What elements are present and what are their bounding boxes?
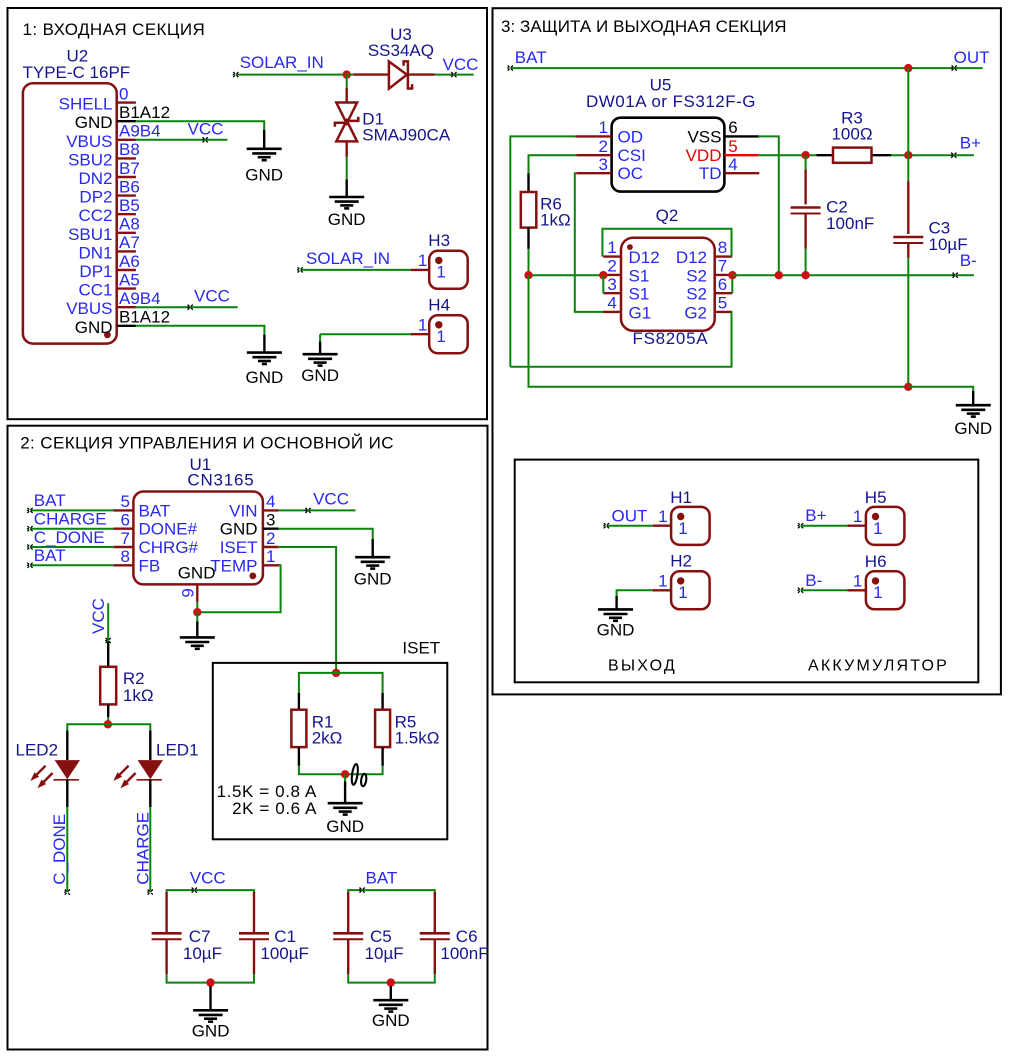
svg-text:DONE#: DONE# [139,520,198,539]
ground GND7 (ISET) [328,803,363,814]
svg-text:6: 6 [718,275,727,294]
svg-text:0: 0 [119,84,128,103]
wire: B- to H6 [801,589,848,591]
svg-text:A8: A8 [119,215,140,234]
Q2 pin 6 (S2) [715,292,733,294]
svg-text:ВЫХОД: ВЫХОД [608,657,677,674]
connector H2 [671,571,710,609]
wire: ground to H2 [617,590,653,596]
svg-text:TYPE-C 16PF: TYPE-C 16PF [23,63,131,82]
svg-text:A5: A5 [119,270,140,289]
svg-text:3: 3 [607,275,616,294]
wire anchor [603,523,609,528]
U2 pin A9B4 (VBUS) [117,306,136,308]
U1 pin 8 (FB) [113,564,133,566]
wire: SOLAR_IN net [236,74,352,76]
wire: net BAT to U1 pin 8 [30,564,113,566]
tvs D1 top lead [346,88,348,103]
gnd lead [972,391,974,405]
ic U1 pin-1 dot [249,573,256,580]
U2 pin B7 (DN2) [117,176,136,178]
wire: CSI to R6 [529,155,577,173]
U5 pin 1 (OD) [575,135,611,137]
svg-text:VCC: VCC [190,868,226,887]
U2 pin B5 (CC2) [117,213,136,215]
svg-text:B+: B+ [960,134,981,153]
wire anchor [798,588,804,593]
svg-text:SBU2: SBU2 [68,150,112,169]
resistor R5 [375,710,390,747]
svg-text:H6: H6 [865,552,887,571]
junction (S2 pins) [728,271,736,279]
svg-text:DP2: DP2 [79,188,112,207]
junction (B+ / C3) [904,151,912,159]
svg-text:2: 2 [607,257,616,276]
section 1 border [8,8,488,419]
svg-text:A9B4: A9B4 [119,289,161,308]
Q2 pin 3 (S1) [603,292,621,294]
gnd lead [372,539,374,557]
svg-text:100nF: 100nF [440,944,488,963]
svg-text:B1A12: B1A12 [119,103,170,122]
connector U2 body [23,83,117,343]
svg-text:GND: GND [354,570,392,589]
U2 pin B1A12 (GND) [117,120,136,122]
Q2 pin 2 (S1) [603,274,621,276]
svg-text:2: 2 [599,137,608,156]
svg-text:A6: A6 [119,252,140,271]
svg-text:G2: G2 [684,303,707,322]
capacitor C1 bottom lead [253,939,255,974]
svg-text:GND: GND [954,419,992,438]
svg-text:1.5kΩ: 1.5kΩ [395,729,440,748]
svg-text:GND: GND [326,817,364,836]
ground GND8 (C7/C1) [193,1010,228,1021]
junction (C7/C1 gnd) [206,978,214,986]
capacitor C6 top lead [434,892,436,933]
wire: S2 row to B- [732,274,974,276]
capacitor C7 plates [152,932,182,935]
wire: VCC cap rail top [167,890,254,892]
wire anchor [64,890,70,895]
svg-text:D12: D12 [629,248,660,267]
wire anchor [297,267,303,272]
svg-text:100nF: 100nF [826,214,874,233]
wire: net CHARGE to U1 pin 6 [30,528,113,530]
wire: U3 to VCC [435,74,474,76]
wire: net BAT to U1 pin 5 [30,509,113,511]
wire: LED rail [67,724,150,730]
svg-text:ISET: ISET [402,639,440,658]
Q2 pin 8 (D12) [715,255,733,257]
svg-text:1: 1 [853,507,862,526]
connector H2 pin lead [653,589,672,591]
svg-text:B+: B+ [805,506,826,525]
svg-text:1: 1 [266,547,275,566]
wire: U1 GND pin to ground [279,529,373,539]
svg-text:CSI: CSI [618,146,646,165]
svg-text:H1: H1 [670,488,692,507]
connector H1 [671,507,710,545]
svg-text:GND: GND [192,1021,230,1040]
svg-text:SS34AQ: SS34AQ [368,41,434,60]
svg-text:GND: GND [75,318,113,337]
resistor R1 [291,710,306,747]
U2 pin A9B4 (VBUS) [117,139,136,141]
U2 pin 0 (SHELL) [117,101,136,103]
ground GND5 (U1 pin3) [355,557,390,568]
ground GND10 (section 3) [956,405,991,416]
U1 pin 5 (BAT) [113,509,133,511]
svg-text:FB: FB [139,556,161,575]
wire anchor (OUT) [951,66,957,71]
svg-text:5: 5 [121,492,130,511]
section 2 border [8,426,488,1050]
junction (S1 pins) [599,271,607,279]
svg-text:TEMP: TEMP [210,556,257,575]
svg-text:B-: B- [960,251,977,270]
svg-text:S2: S2 [686,266,707,285]
led LED1 triangle [138,760,163,779]
wire: R6-S1 vertical to gnd row [529,275,909,387]
jumper ellipses [351,764,359,785]
wire anchor [305,508,311,513]
wire: BAT cap rail top [348,890,435,892]
tvs D1 top triangle [336,103,357,124]
wire: C5/C6 bottom rail [348,974,435,983]
wire: ground to H4 [320,333,411,335]
wire: ISET resistor rail top [299,673,383,693]
wire anchor [952,273,958,278]
U1 pin 2 (ISET) [263,546,279,548]
capacitor C1 plates [239,932,269,935]
wire: C3 to gnd row [907,258,909,387]
svg-text:CHARGE: CHARGE [134,812,153,885]
led LED2 top lead [66,730,68,760]
wire: OUT branch down to B+ [907,68,909,155]
svg-text:OC: OC [618,164,644,183]
wire: R3 to B+ [891,154,974,156]
connector H5 [866,507,905,545]
resistor R1 top lead [298,693,300,710]
wire: S1 pin3 tie [602,275,604,293]
svg-text:S1: S1 [629,285,650,304]
U5 pin 6 (VSS) [724,135,758,137]
tvs D1 bottom lead [346,141,348,157]
wire: VSS down to S2 row [759,136,779,275]
svg-text:C_DONE: C_DONE [50,814,69,885]
wire anchor [202,137,208,142]
wire anchor [451,72,457,77]
gnd lead [263,130,265,148]
wire: OUT to H1 [606,525,652,527]
svg-text:B5: B5 [119,196,140,215]
resistor R1 bottom lead [298,747,300,766]
svg-text:3: 3 [266,511,275,530]
wire anchor [105,638,111,643]
svg-text:1: 1 [658,507,667,526]
svg-text:Q2: Q2 [656,206,679,225]
led LED1 bottom lead [149,780,151,807]
gnd lead [263,335,265,352]
transistor Q2 body [621,238,715,331]
R2 bottom lead [107,704,109,717]
wire: junction down to D1 [346,75,348,88]
svg-text:SBU1: SBU1 [68,225,112,244]
svg-text:1: ВХОДНАЯ СЕКЦИЯ: 1: ВХОДНАЯ СЕКЦИЯ [23,20,206,39]
junction (gnd row / C3) [904,383,912,391]
R2 top lead [107,641,109,667]
wire: LED2 to C_DONE [66,807,68,892]
diode U3 cathode lead [408,73,435,75]
svg-text:10µF: 10µF [183,944,222,963]
wire: VCC down to R2 [107,603,109,641]
wire anchor [359,888,365,893]
svg-text:S2: S2 [686,285,707,304]
resistor R2 [100,667,116,705]
svg-text:VCC: VCC [194,286,230,305]
capacitor C7 top lead [165,892,167,933]
svg-text:OUT: OUT [954,48,990,67]
junction (ISET bottom) [341,770,349,778]
svg-text:CHRG#: CHRG# [139,538,199,557]
svg-text:DP1: DP1 [79,262,112,281]
svg-text:2K = 0.6 A: 2K = 0.6 A [232,799,317,818]
section 3 border [493,8,1001,694]
capacitor C3 plates [893,236,923,239]
svg-text:D12: D12 [676,248,707,267]
svg-text:1: 1 [418,315,427,334]
svg-text:LED2: LED2 [16,741,59,760]
svg-text:GND: GND [178,564,216,583]
svg-text:B8: B8 [119,140,140,159]
svg-text:1: 1 [599,118,608,137]
svg-text:A9B4: A9B4 [119,122,161,141]
U1 pin 3 (GND) [263,528,279,530]
svg-text:5: 5 [718,294,727,313]
resistor R3 leads [816,154,833,156]
gnd lead [390,986,392,1000]
wire: G2 loop to OD vertical [510,312,731,367]
Q2 pin 1 (D12) [603,255,621,257]
svg-text:2: СЕКЦИЯ УПРАВЛЕНИЯ И ОСНОВНО: 2: СЕКЦИЯ УПРАВЛЕНИЯ И ОСНОВНОЙ ИС [20,433,394,452]
svg-text:BAT: BAT [139,501,171,520]
connector H5 pin lead [847,525,866,527]
capacitor C2 bottom lead [804,214,806,249]
connector H6 [866,571,905,609]
U2 pin B8 (SBU2) [117,157,136,159]
wire: S2 pins tie [731,275,733,293]
svg-text:VCC: VCC [313,490,349,509]
svg-text:4: 4 [266,492,275,511]
wire: BAT / OUT row [510,67,982,69]
connector H1 pin lead [653,525,672,527]
svg-text:H3: H3 [428,231,450,250]
svg-text:VIN: VIN [229,501,257,520]
wire: VDD to R3/C2 [758,154,816,156]
svg-text:GND: GND [328,210,366,229]
svg-text:S1: S1 [629,266,650,285]
wire anchor [798,523,804,528]
svg-text:GND: GND [75,113,113,132]
ground GND4 (H4) [303,354,338,365]
junction (ISET top) [332,669,340,677]
ground GND11 (H2) [598,609,633,620]
svg-text:2kΩ: 2kΩ [312,729,343,748]
wire: U1 TEMP loop to pin 9 [197,565,280,612]
svg-text:B1A12: B1A12 [119,308,170,327]
connector H4 pin lead [411,333,430,335]
svg-text:H5: H5 [865,488,887,507]
svg-text:5: 5 [728,137,737,156]
junction (U1 pin9/TEMP/GND) [193,608,201,616]
wire: Q2 D1-D2 top rail [602,229,731,257]
svg-text:SHELL: SHELL [59,95,113,114]
output/battery inner box [515,460,979,683]
R6 top lead [527,173,529,192]
svg-text:OUT: OUT [612,507,648,526]
wire: U2 bottom VBUS to VCC [136,306,238,308]
svg-text:GND: GND [301,366,339,385]
wire [196,612,198,621]
svg-text:1: 1 [607,238,616,257]
svg-text:GND: GND [245,165,283,184]
svg-text:CC2: CC2 [78,206,112,225]
U5 pin 3 (OC) [576,172,611,174]
svg-text:C_DONE: C_DONE [34,528,105,547]
svg-text:B-: B- [805,571,822,590]
led LED2 cathode bar [54,779,79,781]
wire: D1 to ground [346,157,348,180]
wire C2 to B- row [805,249,807,276]
svg-text:7: 7 [718,257,727,276]
svg-text:6: 6 [728,118,737,137]
svg-text:B6: B6 [119,177,140,196]
svg-text:GND: GND [220,520,258,539]
capacitor C6 bottom lead [434,939,436,974]
ic U5 body [612,118,725,192]
svg-text:BAT: BAT [515,48,547,67]
svg-text:4: 4 [728,155,737,174]
svg-text:C7: C7 [189,927,211,946]
connector H4 [429,315,468,353]
resistor R5 bottom lead [381,747,383,766]
wire: U1 VIN to VCC [279,509,356,511]
gnd lead [344,782,346,803]
wire: junction to U3 [347,74,354,76]
svg-text:АККУМУЛЯТОР: АККУМУЛЯТОР [808,657,949,674]
gnd lead [346,179,348,196]
wire R6 to junction [528,249,530,275]
transistor Q2 pin-1 dot [627,244,633,250]
svg-text:A7: A7 [119,233,140,252]
gnd lead [615,596,617,609]
wire: U2 top GND pin to ground [136,121,264,130]
led LED1 top lead [149,730,151,760]
U2 pin A8 (SBU1) [117,232,136,234]
junction (VSS / B- row) [775,271,783,279]
ground GND9 (C5/C6) [373,1000,408,1011]
junction (C5/C6 gnd) [387,978,395,986]
U1 pin 7 (CHRG#) [113,546,133,548]
U2 pin A6 (DP1) [117,269,136,271]
svg-text:VBUS: VBUS [66,132,112,151]
capacitor C1 top lead [253,892,255,933]
wire: ISET bottom to ground [344,774,346,781]
gnd lead [209,986,211,1010]
wire: OD loop (left vertical) [510,136,575,366]
svg-text:9: 9 [179,588,198,597]
svg-text:SMAJ90CA: SMAJ90CA [362,125,451,144]
Q2 pin 4 (G1) [603,311,621,313]
svg-text:1kΩ: 1kΩ [540,211,571,230]
svg-text:VSS: VSS [687,127,721,146]
resistor R6 bottom lead [527,228,529,249]
svg-text:OD: OD [618,127,644,146]
svg-text:H4: H4 [428,296,450,315]
junction (R2 / LEDs) [104,720,112,728]
U5 pin 2 (CSI) [576,154,611,156]
svg-text:B7: B7 [119,159,140,178]
capacitor C2 plates [791,206,821,209]
resistor R5 top lead [381,693,383,710]
wire: LED1 to CHARGE [149,807,151,892]
capacitor C5 plates [333,932,363,935]
led LED1 cathode bar [137,779,162,781]
gnd lead [196,622,198,638]
svg-text:SOLAR_IN: SOLAR_IN [306,249,390,268]
diode U3 anode lead [353,73,389,75]
diode U3 schottky cathode bar [404,61,413,88]
capacitor C5 bottom lead [347,939,349,974]
U5 pin 5 (VDD) [724,154,758,156]
svg-text:BAT: BAT [34,546,66,565]
svg-text:GND: GND [597,621,635,640]
wire: B+ to H5 [801,525,848,527]
wire anchor [951,153,957,158]
U5 pin 4 (TD) [724,172,759,174]
connector H3 pin lead [411,269,430,271]
tvs D1 z-bar [335,117,358,127]
wire anchor [191,888,197,893]
capacitor C3 top lead [907,155,909,181]
resistor R3 [833,148,872,163]
ground GND3 (under D1) [329,197,364,208]
svg-text:C6: C6 [456,927,478,946]
svg-text:VCC: VCC [89,598,108,634]
wire: U1 ISET down to ISET network [279,547,336,673]
connector U2 pin-1 corner dot [104,331,111,338]
svg-text:SOLAR_IN: SOLAR_IN [240,53,324,72]
svg-text:LED1: LED1 [156,741,199,760]
svg-text:H2: H2 [670,552,692,571]
wire: OC down to G1 [575,173,606,312]
connector H6 pin lead [847,589,866,591]
svg-text:GND: GND [372,1011,410,1030]
wire: SOLAR_IN to H3 [300,269,411,271]
svg-text:DW01A or FS312F-G: DW01A or FS312F-G [586,92,756,111]
ground GND6 (U1 pin9, unlabeled) [180,637,215,648]
wire: gnd row to ground [908,387,973,391]
junction (C2 / B- row) [801,271,809,279]
svg-text:C1: C1 [274,927,296,946]
connector H3 [429,251,468,289]
wire anchor [147,890,153,895]
Q2 pin 7 (S2) [715,274,733,276]
wire: S1 junction rail [529,274,604,276]
wire anchor (BAT) [507,66,513,71]
svg-text:BAT: BAT [366,868,398,887]
